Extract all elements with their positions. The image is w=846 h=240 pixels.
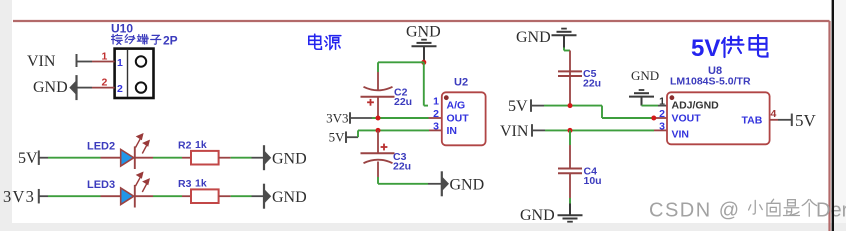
port 5V (right section) <box>508 98 531 115</box>
svg-text:GND: GND <box>33 79 68 96</box>
svg-text:VIN: VIN <box>27 53 56 70</box>
capacitor C3 plus sign <box>381 144 388 151</box>
wire 3V3 to LED3 anode <box>39 195 121 197</box>
port VIN (right section) <box>500 123 532 140</box>
svg-text:VIN: VIN <box>672 129 690 141</box>
U8 pin name TAB <box>742 115 763 127</box>
U8 pin number 3 <box>659 121 665 133</box>
C5 value labels <box>583 68 601 90</box>
svg-text:5V: 5V <box>18 150 38 167</box>
junction dot C3/5V <box>376 128 381 133</box>
svg-text:VIN: VIN <box>500 123 529 140</box>
wire 3V3 to U2 OUT <box>350 117 442 119</box>
wire GND to U10 pin 2 <box>77 87 115 89</box>
junction dot C5/5V <box>568 103 573 108</box>
svg-text:IN: IN <box>447 125 458 137</box>
U2 pin 1 indicator dot <box>444 95 449 100</box>
junction dot C4/VIN <box>568 128 573 133</box>
regulator U2 designator <box>454 77 468 89</box>
svg-text:Der: Der <box>816 200 846 222</box>
capacitor C4 bottom pin <box>569 173 571 203</box>
wire R3 to GND <box>219 195 264 197</box>
svg-text:GND: GND <box>272 151 307 168</box>
watermark CSDN @小向是个Der <box>649 199 846 221</box>
port 5V (far right) <box>792 111 817 130</box>
svg-text:3: 3 <box>433 121 439 133</box>
power port GND (above U8) <box>629 68 659 106</box>
svg-text:GND: GND <box>516 29 551 46</box>
power port GND (bottom right) <box>520 204 583 225</box>
capacitor C3 bottom pin <box>377 162 379 178</box>
port GND (left of U10) <box>33 75 77 100</box>
U8 pin name VIN <box>672 129 690 141</box>
wire LED2 to R2 <box>135 157 191 159</box>
junction dot at U8 VOUT pin <box>651 116 656 121</box>
svg-text:5V: 5V <box>795 111 817 130</box>
resistor R3 label <box>178 178 207 191</box>
resistor R2 label <box>178 139 207 152</box>
capacitor C3 straight plate <box>361 152 395 154</box>
connector U10 designator label <box>111 22 133 36</box>
U2 pin number 1 <box>433 96 439 108</box>
port 5V (LED row 1) <box>18 150 39 167</box>
LED3 emission arrows <box>136 173 150 192</box>
svg-text:GND: GND <box>450 177 485 194</box>
wire 5V to U2 IN <box>346 130 442 137</box>
wire 5V to LED2 anode <box>39 157 121 159</box>
capacitor C2 curved plate <box>364 87 393 91</box>
svg-text:5V: 5V <box>508 98 528 115</box>
svg-text:2: 2 <box>433 108 439 120</box>
svg-text:22u: 22u <box>393 161 411 173</box>
svg-text:22u: 22u <box>583 78 601 90</box>
svg-text:U2: U2 <box>454 77 468 89</box>
svg-text:10u: 10u <box>584 175 602 187</box>
C2 value labels <box>394 86 412 108</box>
svg-text:A/G: A/G <box>447 99 466 111</box>
connector U10 pin number 2 <box>102 77 108 89</box>
svg-text:1: 1 <box>433 96 439 108</box>
wire U8 TAB to 5V port <box>770 119 792 121</box>
port GND (LED row 1) <box>264 145 307 170</box>
LED D3 (LED3) <box>121 185 135 208</box>
C4 value labels <box>584 166 602 188</box>
port 3V3 (LED row 2) <box>3 187 39 206</box>
connector U10 pin name 2 <box>117 83 123 95</box>
LED3 label <box>87 179 115 191</box>
svg-text:1: 1 <box>659 96 665 108</box>
svg-text:GND: GND <box>406 24 441 41</box>
LED D2 (LED2) <box>121 146 135 169</box>
svg-text:3: 3 <box>659 121 665 133</box>
wire LED3 to R3 <box>135 195 191 197</box>
svg-text:R2: R2 <box>178 140 192 152</box>
U8 pin number 4 <box>771 108 777 120</box>
wire R2 to GND <box>219 157 264 159</box>
svg-text:3V3: 3V3 <box>3 187 35 206</box>
connector U10 comment label 接线端子2P <box>112 34 178 48</box>
wire GND down to U2 pin 1 <box>424 62 428 105</box>
connector U10 body <box>115 49 154 98</box>
connector U10 pin name 1 <box>117 57 123 69</box>
U8 pin number 2 <box>659 108 665 120</box>
svg-text:TAB: TAB <box>742 115 763 127</box>
port GND (below U2) <box>442 171 484 196</box>
connector U10 pin hole 1 <box>136 56 146 66</box>
svg-text:U10: U10 <box>111 22 133 36</box>
capacitor C3 curved plate <box>364 160 393 164</box>
regulator U8 comment LM1084S-5.0/TR <box>670 76 751 88</box>
wire GND to U8 ADJ <box>642 105 668 107</box>
power port GND (top right) <box>516 29 577 48</box>
capacitor C5 plates <box>558 70 582 77</box>
svg-text:2: 2 <box>659 108 665 120</box>
LED2 emission arrows <box>136 134 150 153</box>
LED2 label <box>87 141 115 153</box>
port 3V3 (middle) <box>326 111 350 126</box>
svg-text:4: 4 <box>771 108 777 120</box>
regulator U8 body <box>667 92 770 144</box>
svg-text:5V: 5V <box>329 130 346 145</box>
wire GND step to C5 <box>564 48 570 70</box>
svg-text:GND: GND <box>520 207 555 224</box>
U8 pin number 1 <box>659 96 665 108</box>
wire C3 to GND <box>378 177 442 184</box>
regulator U2 body <box>442 92 486 145</box>
port GND (LED row 2) <box>264 184 307 209</box>
section title 电源 <box>309 34 341 49</box>
power port GND (top middle) <box>406 24 441 62</box>
svg-text:VOUT: VOUT <box>672 113 702 125</box>
capacitor C2 top pin <box>377 72 379 90</box>
wire GND to C2 top <box>378 62 424 72</box>
svg-text:ADJ/GND: ADJ/GND <box>672 99 720 111</box>
connector U10 pin hole 2 <box>136 82 146 92</box>
connector U10 pin number 1 <box>102 51 108 63</box>
svg-text:1k: 1k <box>195 178 207 190</box>
U2 pin number 2 <box>433 108 439 120</box>
capacitor C2 plus sign <box>367 99 374 106</box>
svg-text:2P: 2P <box>163 34 178 48</box>
U8 pin name VOUT <box>672 113 702 125</box>
svg-text:22u: 22u <box>394 96 412 108</box>
wire VIN to U8 VIN <box>532 129 667 131</box>
U2 pin name A/G <box>447 99 466 111</box>
capacitor C4 plates <box>558 169 582 174</box>
port VIN (left) <box>27 53 77 70</box>
port 5V (middle) <box>329 130 346 145</box>
capacitor C4 top pin <box>569 130 571 168</box>
regulator U8 designator <box>708 65 722 77</box>
svg-text:GND: GND <box>272 189 307 206</box>
junction dot C2/3V3 <box>376 116 381 121</box>
svg-text:CSDN @: CSDN @ <box>649 200 741 222</box>
junction dot GND/C2 <box>421 60 426 65</box>
U8 pin 1 indicator dot <box>670 95 675 100</box>
svg-text:R3: R3 <box>178 178 192 190</box>
svg-text:OUT: OUT <box>447 113 470 125</box>
U2 pin name OUT <box>447 113 470 125</box>
capacitor C5 bottom pin <box>569 76 571 106</box>
svg-text:3V3: 3V3 <box>326 111 348 126</box>
svg-text:2: 2 <box>117 83 123 95</box>
U2 pin number 3 <box>433 121 439 133</box>
resistor R3 body <box>191 189 219 203</box>
svg-text:LED2: LED2 <box>87 141 115 153</box>
svg-text:GND: GND <box>631 68 659 83</box>
C3 value labels <box>393 151 411 173</box>
svg-text:LED3: LED3 <box>87 179 115 191</box>
wire VIN to U10 pin 1 <box>77 61 115 63</box>
svg-text:5V: 5V <box>691 35 720 62</box>
wire 5V to U8 VOUT <box>531 106 667 118</box>
U2 pin name IN <box>447 125 458 137</box>
capacitor C2 bottom pin <box>377 97 379 118</box>
U8 pin name ADJ/GND <box>672 99 720 111</box>
svg-text:LM1084S-5.0/TR: LM1084S-5.0/TR <box>670 76 751 88</box>
resistor R2 body <box>191 151 219 165</box>
svg-text:1: 1 <box>117 57 123 69</box>
image right border (black) <box>832 0 834 231</box>
capacitor C3 top pin <box>377 130 379 153</box>
svg-text:1k: 1k <box>195 139 207 151</box>
capacitor C2 straight plate <box>361 96 395 98</box>
section title 5V供电 <box>691 35 768 62</box>
